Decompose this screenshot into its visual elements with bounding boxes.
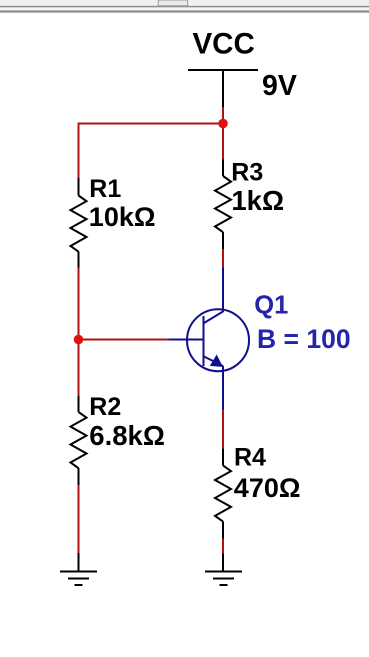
svg-text:R3: R3 (231, 159, 263, 187)
svg-text:Q1: Q1 (254, 292, 288, 320)
svg-text:470Ω: 470Ω (234, 473, 301, 503)
svg-text:B = 100: B = 100 (257, 324, 351, 354)
svg-text:R1: R1 (89, 175, 121, 203)
svg-text:R2: R2 (89, 393, 121, 421)
svg-text:6.8kΩ: 6.8kΩ (89, 420, 165, 451)
svg-text:9V: 9V (262, 70, 297, 102)
svg-text:10kΩ: 10kΩ (89, 202, 156, 232)
svg-text:VCC: VCC (193, 27, 255, 60)
svg-text:1kΩ: 1kΩ (231, 185, 284, 216)
svg-text:R4: R4 (234, 444, 266, 472)
